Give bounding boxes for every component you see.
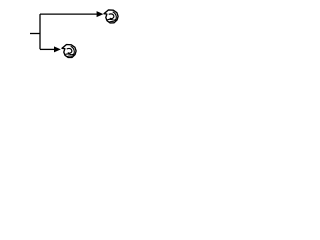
top branch wire [40, 13, 97, 15]
node glyph top [104, 10, 118, 23]
node glyph bottom [62, 45, 76, 58]
arrowhead top [97, 11, 104, 17]
arrowhead bottom [54, 46, 61, 52]
bottom branch wire [40, 48, 54, 50]
trunk wire [39, 14, 41, 49]
root stub wire [30, 33, 40, 35]
